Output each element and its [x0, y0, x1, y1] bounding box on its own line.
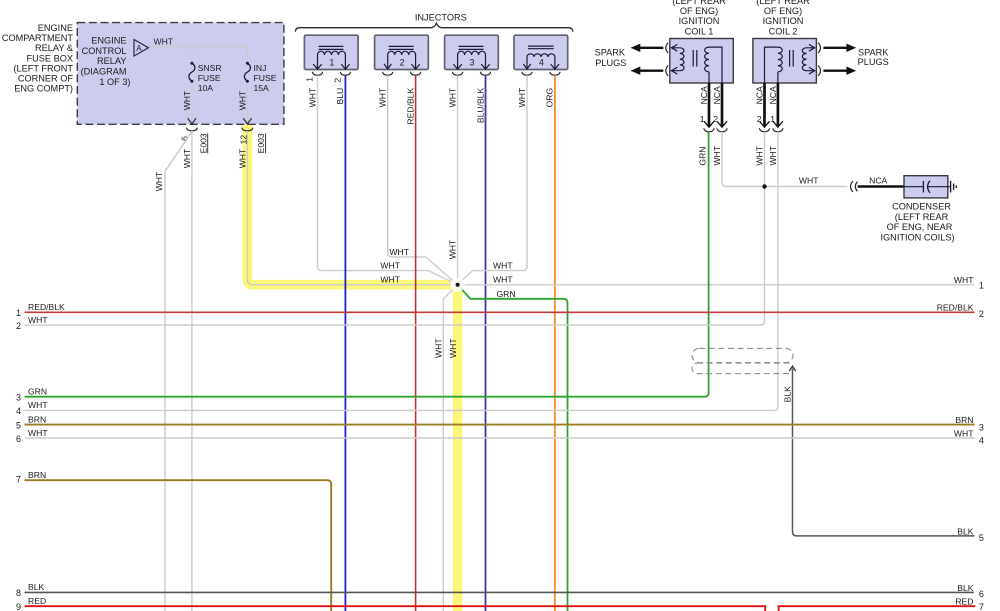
svg-text:WHT: WHT — [154, 36, 174, 46]
svg-text:RED/BLK: RED/BLK — [28, 302, 65, 312]
wire WHT pin6 branch diagonal down-left — [154, 132, 192, 611]
svg-text:3: 3 — [979, 422, 984, 432]
condenser label — [880, 202, 954, 243]
svg-text:FUSE: FUSE — [198, 73, 221, 83]
svg-text:GRN: GRN — [698, 146, 708, 165]
wire WHT coil2 pin2 down to row 2 with condenser junction — [25, 132, 765, 325]
svg-text:BLK: BLK — [28, 582, 45, 592]
wire BLK row 8 left to right — [16, 582, 984, 599]
junction node dot — [450, 278, 464, 292]
svg-text:2: 2 — [713, 114, 718, 124]
highlighted wire yellow overlay (WHT from INJ fuse pin 12 to junction and down) — [247, 125, 457, 611]
svg-text:IGNITION COILS): IGNITION COILS) — [880, 233, 954, 243]
svg-text:BRN: BRN — [28, 414, 46, 424]
injector 2 connector — [383, 72, 421, 75]
svg-text:BRN: BRN — [955, 415, 973, 425]
wire RED row right segment with component box edge — [779, 597, 984, 611]
wire WHT injector1 to junction — [307, 75, 457, 284]
wire ORG injector4 down — [545, 75, 555, 611]
svg-text:NCA: NCA — [768, 86, 778, 104]
spark plugs label left — [595, 48, 627, 68]
svg-text:WHT: WHT — [493, 261, 513, 271]
svg-text:INJECTORS: INJECTORS — [415, 13, 467, 23]
svg-text:IGNITION: IGNITION — [763, 16, 804, 26]
svg-text:WHT: WHT — [237, 148, 247, 168]
wire WHT junction branch down-left — [434, 285, 458, 611]
junction labels right side — [493, 261, 516, 299]
svg-text:E003: E003 — [198, 133, 208, 153]
ignition coil 1 label — [672, 0, 726, 36]
injector 4 — [514, 35, 568, 69]
arrow out pin 12 — [243, 118, 251, 124]
svg-text:1: 1 — [979, 281, 984, 291]
svg-text:WHT: WHT — [378, 87, 388, 107]
svg-text:ORG: ORG — [545, 87, 555, 107]
svg-text:1: 1 — [305, 77, 315, 82]
svg-text:BLK: BLK — [783, 386, 793, 403]
svg-text:OF ENG): OF ENG) — [680, 6, 718, 16]
wire BLK shield drain down to row 5 — [783, 366, 975, 536]
svg-text:COIL 1: COIL 1 — [685, 26, 714, 36]
svg-text:WHT: WHT — [493, 275, 513, 285]
relay/fuse box outline (dashed) — [77, 23, 284, 125]
coil1 connector pin 2 — [713, 114, 727, 132]
svg-text:2: 2 — [757, 114, 762, 124]
svg-text:10A: 10A — [198, 83, 214, 93]
svg-text:ENGINE: ENGINE — [38, 23, 73, 33]
wire WHT pin12 (highlighted) down and right to junction — [237, 131, 457, 285]
svg-text:ENGINE: ENGINE — [91, 36, 126, 46]
right edge row 1 WHT label — [954, 275, 984, 291]
wire BRN row 7 turning down — [16, 470, 331, 611]
ignition coil 1 box U1 — [670, 39, 734, 84]
svg-text:WHT: WHT — [954, 428, 974, 438]
svg-text:WHT: WHT — [754, 145, 764, 165]
svg-text:WHT: WHT — [380, 261, 400, 271]
INJECTORS brace and title — [295, 13, 573, 32]
svg-text:PLUGS: PLUGS — [595, 58, 626, 68]
svg-text:(LEFT REAR: (LEFT REAR — [672, 0, 726, 6]
svg-text:NCA: NCA — [699, 86, 709, 104]
wire NCA to condenser — [858, 176, 904, 187]
svg-text:4: 4 — [979, 436, 984, 446]
ignition coil 2 box U2 — [753, 39, 817, 84]
svg-text:FUSE: FUSE — [254, 73, 277, 83]
svg-text:(LEFT REAR: (LEFT REAR — [756, 0, 810, 6]
svg-text:2: 2 — [979, 309, 984, 319]
svg-text:2: 2 — [16, 321, 21, 331]
injector 1 — [304, 35, 358, 69]
svg-text:SNSR: SNSR — [198, 63, 222, 73]
relay contact triangle A — [134, 40, 149, 57]
svg-text:WHT: WHT — [389, 247, 409, 257]
svg-text:(LEFT REAR: (LEFT REAR — [895, 212, 949, 222]
svg-text:SPARK: SPARK — [595, 48, 626, 58]
svg-text:1: 1 — [770, 114, 775, 124]
svg-text:E003: E003 — [256, 133, 266, 153]
svg-text:NCA: NCA — [754, 86, 764, 104]
svg-text:INJ: INJ — [254, 63, 267, 73]
svg-text:COIL 2: COIL 2 — [769, 26, 798, 36]
arrow out pin 6 — [188, 118, 196, 124]
row 4 WHT labels (wire drawn with coil2 pin1) — [16, 400, 48, 416]
svg-text:NCA: NCA — [869, 176, 887, 186]
svg-text:WHT: WHT — [28, 428, 48, 438]
coil2 connector pin 2 — [757, 114, 770, 132]
svg-text:WHT: WHT — [447, 87, 457, 107]
wire BLU/BLK injector3 down — [475, 75, 485, 611]
svg-text:BLU: BLU — [335, 88, 345, 105]
wire NCA coil1 pin2 — [712, 83, 727, 127]
svg-text:IGNITION: IGNITION — [679, 16, 720, 26]
svg-text:5: 5 — [16, 420, 21, 430]
svg-text:7: 7 — [16, 475, 21, 485]
wire GRN from junction down — [458, 285, 568, 611]
svg-text:4: 4 — [539, 57, 544, 67]
svg-text:PLUGS: PLUGS — [858, 57, 889, 67]
svg-text:NCA: NCA — [712, 86, 722, 104]
condenser connector — [851, 181, 858, 192]
svg-text:1 OF 3): 1 OF 3) — [99, 77, 130, 87]
svg-text:RELAY &: RELAY & — [35, 43, 73, 53]
svg-text:OF ENG, NEAR: OF ENG, NEAR — [887, 222, 953, 232]
svg-text:RED: RED — [28, 596, 46, 606]
ground symbol at condenser — [951, 181, 957, 193]
wire WHT injector3 straight to junction — [447, 75, 457, 284]
svg-text:WHT: WHT — [712, 145, 722, 165]
svg-text:BLU/BLK: BLU/BLK — [475, 88, 485, 124]
row 3 GRN labels (wire drawn with coil1 pin1) — [16, 387, 47, 403]
ignition coil 2 label — [756, 0, 810, 36]
wire WHT junction to right edge pin 1 — [458, 284, 974, 286]
svg-text:1: 1 — [329, 57, 334, 67]
wire NCA coil2 pin1 — [768, 83, 783, 127]
svg-text:WHT: WHT — [517, 87, 527, 107]
svg-text:WHT: WHT — [28, 400, 48, 410]
shielded twisted pair symbol — [692, 348, 793, 373]
coil1 connector pin 1 — [700, 114, 714, 132]
svg-text:GRN: GRN — [28, 387, 47, 397]
svg-text:15A: 15A — [254, 83, 270, 93]
svg-text:WHT: WHT — [768, 145, 778, 165]
row 2 WHT labels (wire drawn with coil2 pin2) — [16, 315, 48, 331]
coil2 connector pin 1 — [770, 114, 783, 132]
injector 3 — [445, 35, 499, 69]
svg-text:1: 1 — [16, 308, 21, 318]
svg-text:WHT: WHT — [182, 148, 192, 168]
wire NCA coil2 pin2 — [754, 83, 769, 127]
svg-text:4: 4 — [16, 406, 21, 416]
svg-text:WHT: WHT — [448, 239, 458, 259]
svg-text:OF ENG): OF ENG) — [764, 6, 802, 16]
svg-text:SPARK: SPARK — [858, 47, 889, 57]
svg-text:WHT: WHT — [307, 87, 317, 107]
svg-text:A: A — [136, 44, 142, 53]
svg-text:RED: RED — [955, 597, 973, 607]
wire NCA coil1 pin1 — [699, 83, 714, 127]
svg-text:WHT: WHT — [237, 90, 247, 110]
spark plugs label right — [858, 47, 890, 67]
wire WHT coil2 pin1 down to row 4 — [25, 132, 778, 411]
svg-text:(LEFT FRONT: (LEFT FRONT — [13, 63, 73, 73]
condenser WHT label — [799, 176, 819, 186]
svg-text:RED/BLK: RED/BLK — [937, 303, 974, 313]
svg-text:(DIAGRAM: (DIAGRAM — [81, 67, 127, 77]
spark plug arrow coil1 bottom — [631, 66, 669, 76]
svg-text:ENG COMPT): ENG COMPT) — [14, 84, 73, 94]
svg-text:6: 6 — [16, 434, 21, 444]
wire WHT injector2 to junction — [378, 75, 458, 284]
svg-text:WHT: WHT — [380, 275, 400, 285]
engine control relay label — [81, 36, 131, 87]
wire BLU injector1 down — [335, 75, 345, 611]
svg-text:GRN: GRN — [497, 289, 516, 299]
svg-text:CORNER OF: CORNER OF — [18, 74, 74, 84]
svg-text:BLK: BLK — [957, 526, 974, 536]
engine compartment relay & fuse box label — [2, 23, 74, 94]
wire BRN row 5 left to right — [16, 414, 984, 432]
wire WHT row 6 left to right — [16, 428, 984, 446]
condenser C1 box — [904, 176, 951, 198]
spark plug arrow coil2 top — [818, 43, 856, 53]
injector 3 connector — [452, 72, 490, 75]
svg-text:9: 9 — [16, 602, 21, 611]
svg-text:RELAY: RELAY — [97, 56, 126, 66]
injector 4 connector — [522, 72, 560, 75]
svg-text:6: 6 — [979, 589, 984, 599]
svg-text:WHT: WHT — [182, 90, 192, 110]
junction labels left side — [380, 247, 409, 285]
injector 1 connector pins 1,2 — [305, 72, 351, 83]
label WHT (relay output) — [154, 36, 174, 46]
wire GRN coil1 pin1 down joining row 3 — [25, 132, 709, 397]
svg-text:WHT: WHT — [28, 315, 48, 325]
wire RED row 9 left segment with component box edge — [16, 596, 765, 611]
fuse SNSR FUSE 10A — [189, 62, 222, 93]
svg-text:CONTROL: CONTROL — [82, 46, 127, 56]
svg-text:8: 8 — [16, 588, 21, 598]
fuse INJ FUSE 15A — [244, 62, 276, 93]
injector 2 — [375, 35, 429, 69]
svg-text:5: 5 — [979, 533, 984, 543]
wire WHT below INJ fuse with label — [237, 84, 247, 123]
svg-text:BLK: BLK — [957, 583, 974, 593]
wire RED/BLK row 1 left to right — [16, 302, 984, 319]
row 5 right BLK labels (wire drawn with shield drain) — [957, 526, 984, 543]
connector E003 pin 6 — [179, 128, 208, 154]
spark plug arrow coil1 top — [631, 43, 669, 53]
node condenser wire junction — [762, 184, 766, 188]
wire WHT coil1 pin2 to condenser line — [712, 132, 847, 187]
svg-text:FUSE BOX: FUSE BOX — [27, 53, 73, 63]
svg-text:3: 3 — [469, 57, 474, 67]
wire WHT below SNSR fuse with label — [182, 84, 192, 123]
svg-text:3: 3 — [16, 393, 21, 403]
svg-text:CONDENSER: CONDENSER — [892, 202, 951, 212]
svg-text:WHT: WHT — [954, 275, 974, 285]
svg-text:7: 7 — [979, 602, 984, 611]
wire WHT injector4 to junction — [458, 75, 527, 284]
svg-text:2: 2 — [400, 57, 405, 67]
svg-text:1: 1 — [700, 114, 705, 124]
svg-text:WHT: WHT — [799, 176, 819, 186]
svg-text:WHT: WHT — [448, 338, 458, 358]
connector E003 pin 12 — [238, 128, 266, 154]
svg-text:BRN: BRN — [28, 470, 46, 480]
svg-text:WHT: WHT — [154, 171, 164, 191]
spark plug arrow coil2 bottom — [818, 66, 856, 76]
wire WHT pin6 straight down — [182, 131, 192, 611]
svg-text:RED/BLK: RED/BLK — [405, 88, 415, 125]
wire RED/BLK injector2 down — [405, 75, 415, 611]
svg-text:2: 2 — [332, 78, 342, 83]
wire WHT from relay to fuses — [149, 46, 248, 62]
svg-text:COMPARTMENT: COMPARTMENT — [2, 33, 74, 43]
svg-text:WHT: WHT — [434, 338, 444, 358]
